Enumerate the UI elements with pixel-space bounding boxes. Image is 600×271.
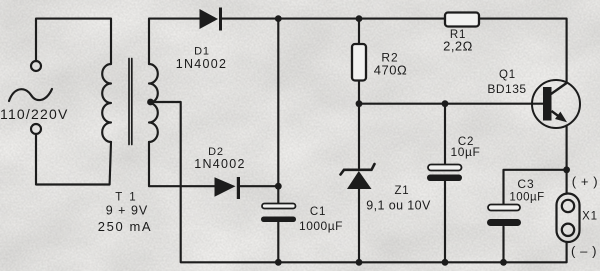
node R2 bottom / base wire bbox=[356, 100, 363, 107]
node ground rail Z1 bbox=[356, 259, 363, 266]
svg-text:9 + 9V: 9 + 9V bbox=[106, 204, 149, 218]
svg-text:9,1 ou 10V: 9,1 ou 10V bbox=[366, 199, 431, 213]
svg-text:T 1: T 1 bbox=[115, 192, 137, 204]
wire C2 top to base wire bbox=[444, 104, 446, 165]
node ground rail C3 bbox=[500, 259, 507, 266]
node ground rail C2 bbox=[442, 259, 449, 266]
zener diode Z1 bbox=[341, 164, 375, 189]
node ground rail C1 bbox=[275, 259, 282, 266]
transistor Q1 bbox=[532, 80, 580, 128]
wire C3 bottom to ground rail bbox=[502, 227, 504, 263]
node emitter / output bbox=[563, 166, 570, 173]
wire emitter down to output node bbox=[566, 126, 568, 194]
node top rail at R2 branch bbox=[356, 15, 363, 22]
capacitor C2 bbox=[427, 165, 462, 182]
svg-text:10µF: 10µF bbox=[451, 145, 481, 159]
wire Z1 anode to ground rail bbox=[358, 189, 360, 262]
wire secondary bottom to D2 anode bbox=[149, 142, 215, 186]
transformer T1 primary winding bbox=[102, 64, 111, 142]
svg-text:X1: X1 bbox=[582, 211, 598, 223]
svg-text:C1: C1 bbox=[310, 206, 326, 218]
wire top rail to R2 bbox=[358, 19, 360, 44]
svg-text:( + ): ( + ) bbox=[572, 174, 598, 189]
svg-text:470Ω: 470Ω bbox=[374, 63, 407, 78]
transformer T1 secondary winding bbox=[149, 64, 158, 142]
diode D1 bbox=[200, 8, 223, 31]
wire C2 bottom to ground rail bbox=[444, 181, 446, 262]
svg-text:BD135: BD135 bbox=[487, 82, 526, 96]
wire secondary top to D1 anode bbox=[149, 19, 200, 64]
node center tap bbox=[147, 99, 154, 106]
svg-text:C3: C3 bbox=[517, 177, 534, 191]
svg-text:1000µF: 1000µF bbox=[299, 219, 343, 233]
connector X1 bbox=[557, 194, 580, 243]
svg-text:1N4002: 1N4002 bbox=[194, 157, 246, 171]
AC tilde symbol bbox=[9, 89, 52, 101]
wire output node to C3 bbox=[504, 170, 567, 204]
wire R2 bottom to base node bbox=[358, 81, 360, 104]
wire base: R2 node to Q1 base bbox=[359, 103, 543, 105]
svg-text:( – ): ( – ) bbox=[571, 244, 597, 259]
svg-text:Q1: Q1 bbox=[499, 69, 516, 81]
wire primary top: input terminal to transformer primary bbox=[36, 19, 111, 64]
transformer T1 core bbox=[129, 59, 132, 145]
wire node vertical: top rail to C1 bbox=[277, 19, 279, 204]
resistor R1 bbox=[445, 13, 479, 27]
wire R1 to collector corner bbox=[479, 19, 567, 83]
wire primary bottom: transformer primary to input terminal bbox=[36, 134, 111, 185]
svg-text:250 mA: 250 mA bbox=[98, 219, 152, 234]
svg-text:2,2Ω: 2,2Ω bbox=[443, 39, 473, 54]
svg-text:110/220V: 110/220V bbox=[0, 106, 69, 122]
wire D2 cathode to node bbox=[240, 185, 278, 187]
diode D2 bbox=[215, 177, 241, 199]
svg-text:100µF: 100µF bbox=[509, 192, 544, 204]
wire C1 bottom to ground rail bbox=[277, 222, 279, 262]
wire base node to Z1 cathode bbox=[358, 104, 360, 168]
terminal input bottom bbox=[31, 124, 41, 134]
terminal input top bbox=[31, 61, 41, 71]
node D2 cathode / C1 bbox=[275, 183, 282, 190]
resistor R2 bbox=[352, 44, 366, 81]
svg-text:Z1: Z1 bbox=[394, 185, 409, 197]
svg-text:1N4002: 1N4002 bbox=[176, 57, 228, 71]
wire D1 cathode to R1 (top rail) bbox=[222, 18, 446, 20]
node C2 / base wire bbox=[442, 100, 449, 107]
capacitor C1 bbox=[261, 204, 296, 223]
node top rail at D2/C1 branch bbox=[275, 15, 282, 22]
svg-text:D1: D1 bbox=[194, 46, 210, 58]
wire center tap to ground rail and bottom rail to X1 bbox=[151, 102, 567, 262]
capacitor C3 bbox=[487, 205, 521, 227]
